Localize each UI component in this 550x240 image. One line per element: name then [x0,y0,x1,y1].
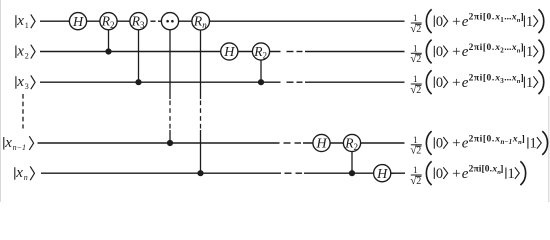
svg-text:2πi[0.: 2πi[0. [469,74,495,84]
svg-text:x: x [15,165,23,181]
svg-text:0: 0 [436,14,443,30]
wire row4 dashes [284,142,291,144]
wire row5 left [41,172,281,174]
svg-text:2πi[0.: 2πi[0. [469,43,495,53]
svg-text:x: x [4,135,12,151]
svg-text:...: ... [504,43,511,53]
gate cdots row1 [161,13,178,30]
svg-text:2πi[0.: 2πi[0. [469,165,492,175]
svg-text:2πi[0.: 2πi[0. [469,134,495,144]
output state row5 [410,161,525,187]
faint scan border right edge [548,96,550,202]
svg-text:1: 1 [413,13,418,23]
svg-text:+: + [452,166,460,182]
svg-text:H: H [223,45,235,60]
svg-text:0: 0 [436,44,443,60]
svg-text:+: + [452,14,460,30]
svg-text:0: 0 [436,75,443,91]
control line R2row4 to row5 [351,143,353,173]
control dot row4 under cdots [167,140,173,146]
svg-text:n−1: n−1 [501,138,513,146]
wire row3 left [40,81,281,83]
svg-text:1: 1 [413,165,418,175]
qubit label |x2> [16,44,35,61]
svg-text:+: + [452,75,460,91]
svg-text:x: x [512,134,518,144]
wire row2 left [40,51,281,53]
qubit label |xn> [15,165,35,182]
control line dots gate to row4 [169,21,171,99]
svg-text:1: 1 [526,75,533,91]
svg-text:n−1: n−1 [13,143,26,152]
wire row1 right [162,20,405,22]
svg-text:1: 1 [530,136,537,152]
control dot row5 under Rn [197,170,203,176]
svg-text:1: 1 [413,74,418,84]
wire row2 right [305,51,405,53]
svg-text:1: 1 [526,44,533,60]
svg-text:]: ] [500,165,503,175]
wire row2 dashes [287,51,294,53]
svg-text:1: 1 [25,21,29,30]
svg-text:]: ] [521,13,524,23]
wire row1 dashed between R3 and dots gate [151,20,156,22]
svg-text:3: 3 [140,20,145,30]
svg-text:3: 3 [25,82,29,91]
svg-text:+: + [452,136,460,152]
faint scan border left edge [0,0,2,202]
svg-text:]: ] [522,134,525,144]
wire row1 left [40,20,148,22]
gate R3 row1 [130,13,147,31]
output state row2 [410,40,543,66]
svg-text:n: n [202,20,207,30]
qubit label |x1> [16,13,35,30]
svg-text:2: 2 [354,142,359,152]
svg-text:...: ... [504,13,511,23]
gate H row1 [69,13,86,30]
svg-text:H: H [315,137,327,152]
gate H row4 [313,134,330,151]
svg-text:1: 1 [526,14,533,30]
gate R2 row2 [252,43,269,61]
svg-text:]: ] [521,74,524,84]
svg-text:2: 2 [263,50,268,60]
svg-text:x: x [16,13,24,29]
svg-text:+: + [452,44,460,60]
output state row1 [410,9,543,35]
control line R2row2 to row3 [260,52,262,83]
control line R3row1 to row3 [138,21,140,82]
svg-text:2: 2 [416,54,421,65]
control dot row3 under R2row2 [258,79,264,85]
output state row3 [410,70,543,96]
svg-text:1: 1 [413,43,418,53]
control line Rn to row5 [200,21,202,99]
wire row3 dashes [287,81,294,83]
vertical dots between x3 and xn-1 [22,94,24,129]
control line R2row1 to row2 [108,21,110,51]
svg-text:1: 1 [508,166,515,182]
gate Rn row1 [192,12,210,30]
qubit label |xn-1> [4,135,34,152]
svg-text:2: 2 [416,24,421,35]
svg-text:x: x [16,74,24,90]
wire row4 right [303,142,405,144]
svg-text:x: x [16,44,24,60]
svg-text:0: 0 [436,136,443,152]
wire row5 dashes [285,172,292,174]
svg-text:2πi[0.: 2πi[0. [469,13,495,23]
svg-text:2: 2 [25,51,29,60]
gate H row5 [374,165,391,182]
svg-text:H: H [376,167,388,182]
svg-text:1: 1 [413,135,418,145]
svg-text:x: x [494,134,500,144]
svg-text:0: 0 [436,166,443,182]
svg-text:n: n [24,173,28,182]
control dot row5 under R2row4 [349,170,355,176]
svg-text:...: ... [504,74,511,84]
output state row4 [410,131,547,157]
svg-text:2: 2 [416,146,421,157]
gate H row2 [221,43,238,60]
qubit label |x3> [16,74,35,91]
wire row5 right [304,172,394,174]
svg-text:H: H [72,15,84,30]
gate R2 row1 [100,13,117,31]
svg-text:2: 2 [416,85,421,96]
wire row3 right [305,81,405,83]
gate R2 row4 [343,134,360,152]
svg-text:]: ] [521,43,524,53]
control dot row3 under R3row1 [135,79,141,85]
wire row5 stub to formula [390,172,405,174]
control dot row2 under R2row1 [105,48,111,54]
svg-text:2: 2 [110,20,115,30]
svg-text:2: 2 [416,176,421,187]
wire row4 left [38,142,280,144]
